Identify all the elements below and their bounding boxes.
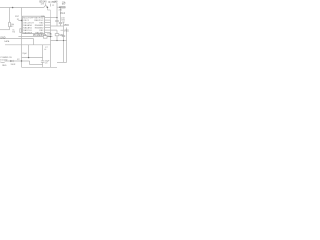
node dot [21,60,22,61]
svg-text:D1 LED: D1 LED [0,59,8,61]
wire H y64.6 [30,64,43,66]
wire V x50.5 upper [50,10,52,20]
wire H y30 [45,29,57,31]
wire [60,24,62,26]
capacitor C2 [59,22,62,23]
wire tick x63.5 [62,21,64,23]
wire pin y22.6 [45,22,51,24]
connector J1 [43,35,47,38]
wire [56,30,58,33]
wire V x66.6 [66,28,68,63]
wire V x42.6 [42,45,44,61]
svg-text:DATA: DATA [4,40,10,43]
svg-text:16x2: 16x2 [60,13,66,15]
node dot [63,40,64,41]
capacitor C1 [55,20,58,21]
node dot [28,57,29,58]
node dot [56,40,57,41]
wire pin y32.6 [45,32,51,34]
wire left bus A [9,8,11,23]
wire [56,22,58,26]
wire H y38.6 [0,38,34,40]
svg-text:VDD: VDD [64,25,69,27]
wire pin y20.1 [45,19,51,21]
wire pin y25.1 [45,24,51,26]
wire diode row [5,60,30,62]
wire H y30 right [61,29,64,31]
svg-text:PIC16F877A: PIC16F877A [33,34,47,37]
wire H y10 [47,9,50,11]
wire H y26 [51,25,64,27]
wire [47,36,51,38]
wire V x60.5 [60,7,62,22]
resistor R1 [9,22,11,26]
svg-text:RA3/REF: RA3/REF [23,31,33,34]
wire mid-left [0,29,10,31]
wire tick C7 [44,48,46,50]
IC U1 body [23,16,45,33]
wire V x50.5 [50,20,52,67]
svg-text:330R: 330R [11,64,16,66]
node dot [56,17,57,18]
wire top rail [0,7,44,9]
svg-text:C1: C1 [52,5,54,7]
resistor R2 [20,29,22,33]
wire V x33.6 [33,39,35,45]
wire V x28.6 [28,45,30,58]
capacitor C4 [41,61,44,62]
wire stub Q1 [50,4,52,7]
wire pin stub [18,20,22,22]
wire H y40.5 [51,40,67,42]
wire [9,27,11,30]
wire [56,36,58,41]
wire H y36.6 [18,36,43,38]
wire top right [57,6,66,8]
component X1 [55,34,59,36]
wire V x63.5 [63,22,65,62]
wire [42,62,44,67]
wire H y57.6 [22,57,43,59]
svg-text:VSS: VSS [64,30,69,32]
diode D1 [10,60,13,62]
svg-text:RED: RED [2,65,7,67]
svg-text:GND: GND [0,37,5,39]
wire pin y27.6 [45,27,51,29]
svg-text:RB1/INT: RB1/INT [35,32,44,34]
IC pin labels right [34,17,44,34]
resistor R3 [61,6,65,8]
svg-text:4MHz: 4MHz [47,36,52,38]
node dot [21,20,22,21]
wire H y44.8 [5,44,51,46]
IC pin labels left [23,17,34,34]
svg-text:22pF: 22pF [22,53,27,55]
wire rail y62.4 [57,61,67,63]
node dot [59,7,60,8]
wire pin y17.6 [45,17,57,19]
wire Q1 emitter drop [46,7,48,10]
wire bus B upper [21,8,23,21]
node dot [12,7,14,9]
transistor Q1 [44,3,48,7]
wire V x57 top [56,3,58,21]
wire V x29.6 [29,61,31,65]
node dot [50,36,51,37]
ground rail y67.3 [22,66,58,68]
wire bus B lower [21,21,23,68]
junction dots [12,7,64,62]
capacitor C3 [62,35,65,36]
svg-text:100n: 100n [59,35,63,37]
node dot [47,7,49,9]
